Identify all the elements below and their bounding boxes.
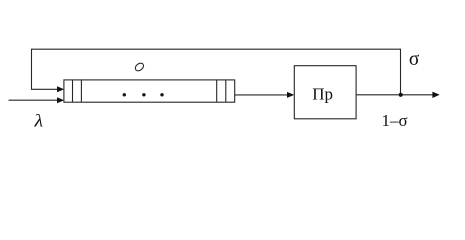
wire: feedback loop top horizontal (32, 48, 401, 50)
block: server Pr (294, 66, 356, 119)
node: junction of feedback branch on output wire (399, 93, 403, 97)
wire: queue to server (235, 92, 295, 98)
svg-text:σ: σ (409, 49, 420, 70)
svg-text:λ: λ (33, 110, 43, 130)
svg-text:Пр: Пр (312, 85, 333, 104)
label O (queue name, italic) (134, 62, 145, 73)
wire: feedback loop left vertical (31, 49, 33, 90)
wire: feedback loop right vertical (sigma branch) (400, 49, 402, 95)
queue buffer O (rectangle with cell dividers) (64, 80, 235, 102)
wire: lambda input arrow (9, 97, 65, 103)
queue ellipsis dots (123, 93, 164, 96)
wire: feedback return into queue input (31, 86, 64, 92)
wire: server output (356, 92, 440, 98)
svg-text:1–σ: 1–σ (382, 111, 408, 130)
